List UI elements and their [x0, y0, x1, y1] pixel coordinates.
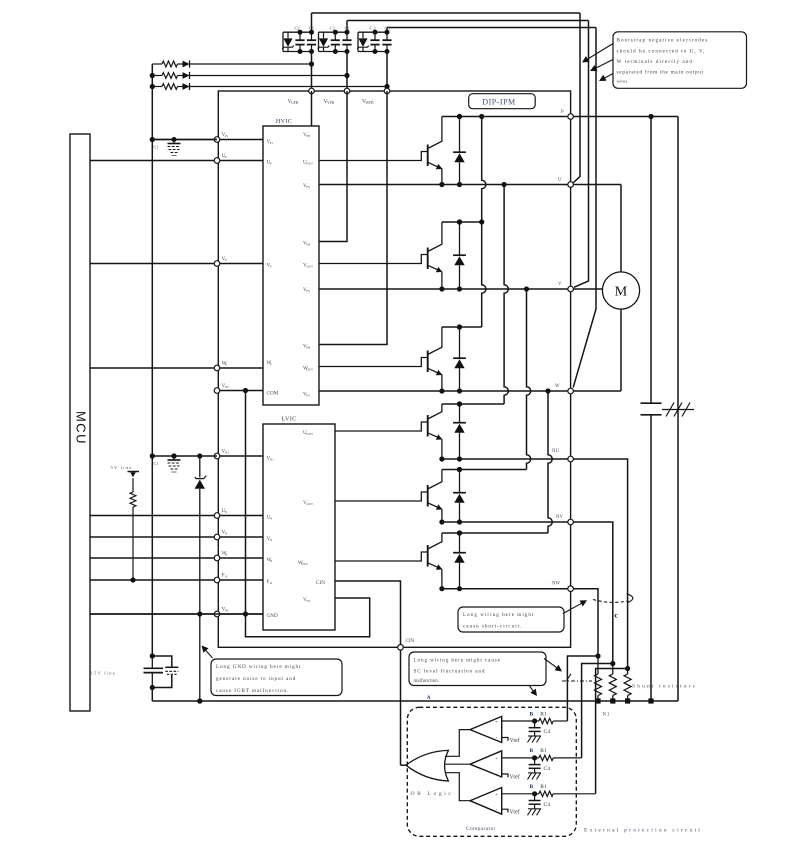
wire shunt RW tap to R1 row1	[567, 656, 598, 721]
terminal VNC2	[214, 611, 220, 617]
svg-text:C1: C1	[154, 461, 159, 466]
node WP label	[222, 361, 228, 367]
terminal VUFB	[309, 88, 315, 94]
node VN label	[222, 530, 228, 536]
bootstrap circuit group 2 (zener + capacitors C2/C1)	[318, 30, 352, 54]
arrow bootstrap note 3	[599, 74, 613, 82]
wire control ground vertical	[243, 388, 248, 617]
wire bootstrap U drop to U terminal	[573, 13, 580, 183]
diode bootstrap feed row1	[183, 60, 190, 67]
wire VN input	[90, 536, 263, 538]
callout GND wiring note box	[211, 659, 342, 696]
svg-text:UFB: UFB	[291, 101, 299, 105]
svg-text:+: +	[495, 756, 498, 761]
svg-text:C2: C2	[330, 26, 335, 31]
comparator U5	[470, 788, 502, 815]
terminal U	[568, 182, 574, 188]
terminal VNC	[214, 388, 220, 394]
pin LVIC FO inside label	[267, 579, 273, 585]
wire VWFB terminal to HVIC	[319, 91, 387, 345]
terminal VVFB	[344, 88, 350, 94]
comparator U3	[470, 716, 502, 742]
motor M	[602, 272, 639, 309]
wire bootstrap group3 to VWFB terminal	[384, 52, 389, 90]
wire W-phase high collector rail	[442, 324, 482, 329]
svg-text:C1: C1	[309, 26, 314, 31]
svg-text:separated from the main output: separated from the main output	[617, 69, 704, 76]
svg-text:External protection circuit: External protection circuit	[584, 828, 702, 834]
pin HVIC COM inside label	[267, 391, 279, 397]
wire row3 to group3	[190, 86, 387, 88]
node B point 2 label	[530, 748, 534, 754]
terminal UP	[214, 158, 220, 164]
svg-text:C2: C2	[295, 26, 300, 31]
comparator U4	[470, 751, 502, 778]
callout bootstrap note box	[613, 32, 747, 89]
DIP-IPM label box	[469, 94, 536, 109]
terminal P	[568, 114, 574, 120]
svg-text:W terminals directly and: W terminals directly and	[617, 59, 694, 65]
wire U to motor	[620, 185, 622, 272]
wire UP input	[90, 160, 263, 162]
pin HVIC VP1 inside label	[267, 139, 274, 145]
wire comparator 2 output	[444, 763, 470, 765]
node VP1 label	[222, 132, 229, 138]
pin HVIC VUFB inside label	[303, 132, 311, 138]
svg-text:P1: P1	[270, 141, 274, 145]
svg-text:R1: R1	[540, 712, 547, 718]
wire comparator 3 Vref input	[502, 809, 508, 812]
svg-text:U: U	[558, 178, 562, 183]
capacitor C4 row2	[529, 758, 541, 773]
wire shunt RU tap to R1 row3	[596, 669, 628, 794]
svg-text:C 1: C 1	[385, 26, 391, 31]
node WN label	[222, 551, 228, 557]
svg-text:P: P	[225, 363, 227, 367]
node C4 label row1	[544, 729, 551, 735]
svg-text:P: P	[225, 155, 227, 159]
capacitor C1 bypass at y=456	[168, 454, 181, 473]
svg-text:OUT: OUT	[306, 265, 313, 269]
node B point 3 label	[530, 784, 534, 790]
svg-text:C4: C4	[544, 802, 551, 808]
node VNC label	[222, 383, 231, 389]
resistor shunt RU	[624, 666, 631, 704]
wire V to N-side collector	[527, 289, 531, 470]
wire riser P to V/W collector	[479, 117, 486, 328]
svg-text:wires.: wires.	[617, 79, 629, 84]
pin HVIC VVFB inside label	[303, 241, 311, 247]
svg-text:malfunction.: malfunction.	[414, 679, 440, 684]
terminal NU	[568, 456, 574, 462]
svg-text:P1: P1	[225, 134, 229, 138]
LVIC label	[281, 416, 296, 423]
pin LVIC VN inside label	[267, 536, 273, 542]
svg-text:DIP-IPM: DIP-IPM	[482, 98, 515, 107]
svg-text:NC: NC	[225, 385, 230, 389]
node External protection circuit label	[584, 828, 702, 834]
terminal WP	[214, 365, 220, 371]
node NV label	[556, 515, 563, 520]
svg-text:GND: GND	[267, 613, 278, 619]
DIP-IPM module outline box	[218, 91, 570, 647]
svg-text:NC: NC	[306, 599, 311, 603]
pin HVIC VUFS inside label	[303, 183, 310, 189]
pin HVIC VP inside label	[267, 263, 272, 269]
svg-text:FS: FS	[306, 185, 310, 189]
callout SC level note box	[409, 652, 546, 686]
capacitor C4 row1	[529, 721, 541, 736]
svg-text:+: +	[495, 719, 498, 724]
power 5V supply tap	[128, 472, 140, 478]
svg-text:C4: C4	[544, 729, 551, 735]
node CIN label	[406, 639, 415, 644]
node Comparator label	[466, 826, 496, 832]
svg-text:NW: NW	[552, 582, 560, 587]
pin LVIC WN inside label	[267, 557, 273, 563]
wire LVIC VNC return	[246, 598, 370, 637]
terminal CIN	[398, 645, 404, 651]
resistor bootstrap feed row2	[152, 73, 182, 79]
wire VUFB terminal to HVIC	[311, 91, 313, 126]
wire U to N-side collector	[504, 185, 508, 405]
arrow bootstrap note 2	[590, 60, 613, 72]
svg-text:should be connected to U, V,: should be connected to U, V,	[617, 49, 706, 55]
pin LVIC VNC inside label	[303, 597, 312, 603]
External protection circuit dashed box	[407, 707, 576, 836]
node B point 1 label	[530, 712, 534, 718]
svg-text:VFB: VFB	[327, 101, 335, 105]
arrow bootstrap note 1	[582, 44, 613, 63]
node Vref label 1	[510, 737, 520, 744]
svg-text:MCU: MCU	[74, 411, 89, 445]
svg-text:P: P	[270, 162, 272, 166]
MCU block	[70, 134, 90, 711]
wire NV to shunt	[573, 522, 612, 664]
svg-text:B: B	[530, 748, 534, 754]
wire P to earth branch	[677, 117, 679, 702]
svg-text:COM: COM	[267, 391, 279, 397]
wire VN1 zener branch upper	[199, 456, 201, 478]
wire VNC2 input	[90, 613, 263, 615]
svg-text:NC: NC	[225, 609, 230, 613]
pin LVIC UN inside label	[267, 515, 273, 521]
node R1 label row2	[540, 748, 547, 754]
wire VP input	[90, 263, 263, 265]
svg-text:N1: N1	[603, 713, 611, 718]
transistor Q6 W-phase low-side (IGBT with freewheel diode)	[335, 530, 466, 591]
op-amp U1 HVIC block	[263, 126, 319, 405]
wire VN1 stub	[217, 455, 263, 457]
node FO label	[222, 573, 228, 579]
ground chassis row3	[528, 809, 542, 816]
callout short-circuit note box	[458, 607, 564, 632]
ground earth symbol	[662, 403, 694, 417]
wire UN input	[90, 515, 263, 517]
svg-text:+: +	[495, 792, 498, 797]
svg-text:OUT: OUT	[306, 368, 313, 372]
resistor bootstrap feed row3	[152, 84, 182, 90]
pin HVIC WP inside label	[267, 360, 272, 366]
wire W phase rail VWFS	[319, 388, 621, 393]
svg-text:CIN: CIN	[316, 580, 325, 586]
wire V-phase low collector rail	[442, 467, 527, 472]
node 5V line label	[111, 465, 133, 470]
terminal VWFB	[384, 88, 390, 94]
svg-text:Vref: Vref	[510, 774, 520, 781]
node Vref label 3	[510, 809, 520, 816]
svg-text:P: P	[270, 362, 272, 366]
wire comparator 3 output	[445, 773, 470, 801]
terminal VN	[214, 534, 220, 540]
svg-text:15V line: 15V line	[91, 671, 116, 676]
transistor Q5 V-phase low-side (IGBT with freewheel diode)	[335, 467, 466, 525]
svg-text:B: B	[530, 784, 534, 790]
wire FO input	[90, 579, 263, 581]
svg-text:N1: N1	[225, 451, 229, 455]
wire 15V to ground rail	[151, 688, 153, 702]
callout short-circuit note text	[463, 612, 534, 630]
wire comparator 2 + input	[502, 757, 535, 759]
wire row1 to group1	[190, 63, 312, 65]
wire comparator 2 Vref input	[502, 774, 508, 777]
svg-text:OUT: OUT	[306, 502, 313, 506]
node VNC2 label	[222, 607, 231, 613]
svg-text:V: V	[558, 282, 562, 287]
svg-text:Vref: Vref	[510, 809, 520, 816]
diode zener D4	[195, 476, 207, 489]
terminal UN	[214, 513, 220, 519]
svg-text:P: P	[561, 110, 564, 115]
capacitor C2 label	[295, 26, 300, 31]
capacitor C2 label	[330, 26, 335, 31]
node R1 label row1	[540, 712, 547, 718]
node OR Logic label	[411, 791, 454, 797]
transistor Q3 W-phase high-side (IGBT with freewheel diode)	[319, 324, 466, 393]
wire W to N-side collector	[548, 391, 552, 533]
svg-text:NV: NV	[556, 515, 563, 520]
wire VNC stub	[217, 390, 263, 392]
svg-text:C 2: C 2	[370, 26, 376, 31]
logic gate OR (pointing left)	[406, 750, 449, 781]
terminal VP1	[214, 137, 220, 143]
wire P rail	[442, 114, 678, 119]
pin HVIC VWFB inside label	[303, 344, 311, 350]
capacitor 15V line electrolytic pair	[144, 653, 179, 690]
wire NU to shunt	[573, 459, 627, 669]
node P label	[561, 110, 564, 115]
svg-text:R1: R1	[540, 784, 547, 790]
wire NV rail	[442, 521, 571, 523]
transistor Q2 V-phase high-side (IGBT with freewheel diode)	[319, 219, 466, 291]
svg-text:Long wiring here might: Long wiring here might	[463, 612, 534, 618]
capacitor C1 bypass at y=139.5	[168, 137, 181, 156]
node C4 label row2	[544, 766, 551, 772]
diode bootstrap feed row2	[183, 72, 190, 79]
wire comparator 3 + input	[502, 793, 535, 795]
wire shunt RV tap to R1 row2	[582, 664, 613, 758]
node N1 label	[603, 713, 611, 718]
node U label	[558, 178, 562, 183]
callout GND wiring note text	[216, 664, 301, 694]
terminal WN	[214, 555, 220, 561]
callout SC level note text	[414, 658, 501, 685]
node C4 label row3	[544, 802, 551, 808]
node V label	[558, 282, 562, 287]
wire zener to ground	[197, 489, 202, 704]
wire VVFB terminal to HVIC	[319, 91, 347, 242]
wire bootstrap group2 to VVFB terminal	[344, 52, 349, 89]
current loop C dashed arc	[593, 594, 633, 603]
svg-text:OUT: OUT	[301, 562, 308, 566]
node Shunt resistors label	[632, 684, 697, 690]
wire U-phase low collector rail	[442, 401, 504, 406]
wire comparator 1 Vref input	[502, 738, 508, 741]
wire NW to shunt	[573, 589, 598, 656]
callout bootstrap note text	[617, 38, 709, 84]
svg-text:Shunt resistors: Shunt resistors	[632, 684, 697, 690]
svg-text:P: P	[270, 265, 272, 269]
capacitor C 1 label	[385, 26, 391, 31]
resistor R1 row1	[532, 718, 567, 723]
terminal NW	[568, 586, 574, 592]
svg-text:R1: R1	[540, 748, 547, 754]
wire bootstrap V drop to V terminal	[574, 21, 589, 288]
svg-text:FS: FS	[306, 289, 310, 293]
svg-text:OR Logic: OR Logic	[411, 791, 454, 797]
terminal NV	[568, 519, 574, 525]
wire row2 to group2	[190, 75, 347, 77]
wire CIN from LVIC	[335, 581, 401, 644]
svg-text:LVIC: LVIC	[281, 416, 296, 423]
resistor R1 row3	[532, 791, 596, 796]
svg-text:P: P	[225, 258, 227, 262]
wire dash-dot A line	[562, 674, 592, 681]
svg-text:OUT: OUT	[306, 432, 313, 436]
wire bootstrap W top link	[387, 28, 596, 33]
terminal VP	[214, 261, 220, 267]
svg-text:cause IGBT malfunction.: cause IGBT malfunction.	[216, 687, 289, 694]
node R1 label row3	[540, 784, 547, 790]
bootstrap circuit group 1 (zener + capacitors C2/C1)	[282, 30, 316, 54]
arrow GND wiring note	[202, 646, 213, 659]
node VVFB label	[324, 99, 335, 105]
svg-text:HVIC: HVIC	[276, 118, 292, 125]
wire W to motor	[620, 309, 622, 391]
node VN1 label	[222, 449, 230, 455]
resistor bootstrap feed row1	[152, 61, 182, 67]
svg-text:OUT: OUT	[306, 162, 313, 166]
capacitor C1 label	[154, 145, 159, 150]
svg-text:B: B	[530, 712, 534, 718]
op-amp U2 LVIC block	[263, 424, 335, 630]
svg-text:5V line: 5V line	[111, 465, 133, 470]
node 15V line label	[91, 671, 116, 676]
svg-text:Vref: Vref	[510, 737, 520, 744]
pin LVIC VOUT inside label	[303, 500, 313, 506]
capacitor C4 row3	[529, 794, 541, 809]
capacitor C1 label	[345, 26, 350, 31]
svg-text:Comparator: Comparator	[466, 826, 496, 832]
svg-text:C1: C1	[345, 26, 350, 31]
wire 15V supply vertical rail	[150, 64, 155, 656]
wire bootstrap W drop to W terminal	[573, 28, 596, 388]
wire bootstrap V top link	[347, 21, 589, 33]
svg-text:Long wiring here might cause: Long wiring here might cause	[414, 658, 501, 664]
svg-text:WFB: WFB	[366, 101, 375, 105]
svg-text:SC level fluctuation and: SC level fluctuation and	[414, 668, 486, 675]
node Vref label 2	[510, 774, 520, 781]
svg-text:C1: C1	[154, 145, 159, 150]
node VWFB label	[362, 99, 374, 105]
terminal W	[568, 388, 574, 394]
resistor R pullup Fo	[130, 478, 136, 582]
svg-text:cause short-circuit.: cause short-circuit.	[463, 624, 522, 630]
arrow SC level note 2	[530, 686, 538, 696]
node C marker	[615, 611, 619, 620]
capacitor C1 label	[309, 26, 314, 31]
pin HVIC UP inside label	[267, 160, 272, 166]
capacitor DC-link	[641, 117, 662, 702]
wire comparator 1 + input	[502, 720, 535, 722]
svg-text:W: W	[555, 384, 560, 389]
HVIC label	[276, 118, 292, 125]
arrow short-circuit note	[563, 600, 587, 613]
wire WN input	[90, 557, 263, 559]
svg-text:M: M	[615, 285, 628, 300]
node UN label	[222, 508, 228, 514]
wire VP1 input	[152, 139, 264, 141]
wire ground N1 rail	[152, 698, 678, 703]
wire CIN to protection circuit	[401, 650, 406, 765]
wire WP input	[90, 367, 263, 369]
pin LVIC GND inside label	[267, 613, 278, 619]
capacitor C 2 label	[370, 26, 376, 31]
node VUFB label	[288, 99, 299, 105]
arrow SC level note 1	[544, 659, 562, 672]
pin LVIC CIN inside label	[316, 580, 325, 586]
capacitor C1 label	[154, 461, 159, 466]
pin LVIC UOUT inside label	[303, 430, 313, 436]
svg-text:NU: NU	[552, 449, 559, 454]
pin LVIC VN1 inside label	[267, 456, 275, 462]
pin HVIC VVFS inside label	[303, 287, 310, 293]
wire NU rail	[442, 458, 571, 460]
node N1 junction square	[648, 698, 653, 703]
node VP label	[222, 256, 227, 262]
svg-text:generate noise to input and: generate noise to input and	[216, 676, 296, 682]
node UP label	[222, 153, 227, 159]
transistor Q4 U-phase low-side (IGBT with freewheel diode)	[335, 401, 466, 461]
wire bootstrap U top link	[312, 13, 581, 32]
wire U phase rail VUFS	[319, 182, 621, 187]
wire VN1 feed from 15V rail	[152, 453, 217, 458]
node A marker	[427, 695, 431, 701]
terminal VN1	[214, 453, 220, 459]
terminal FO	[214, 577, 220, 583]
svg-text:C4: C4	[544, 766, 551, 772]
resistor R1 row2	[532, 755, 582, 760]
pin LVIC WOUT inside label	[298, 560, 308, 566]
terminal V	[568, 286, 574, 292]
svg-text:CIN: CIN	[406, 639, 415, 644]
pin HVIC UOUT inside label	[303, 160, 313, 166]
ground chassis row1	[528, 736, 542, 743]
wire GND line	[90, 613, 263, 615]
svg-text:Bootstrap negative electrodes: Bootstrap negative electrodes	[617, 38, 709, 44]
resistor shunt RW	[595, 653, 602, 703]
node W label	[555, 384, 560, 389]
